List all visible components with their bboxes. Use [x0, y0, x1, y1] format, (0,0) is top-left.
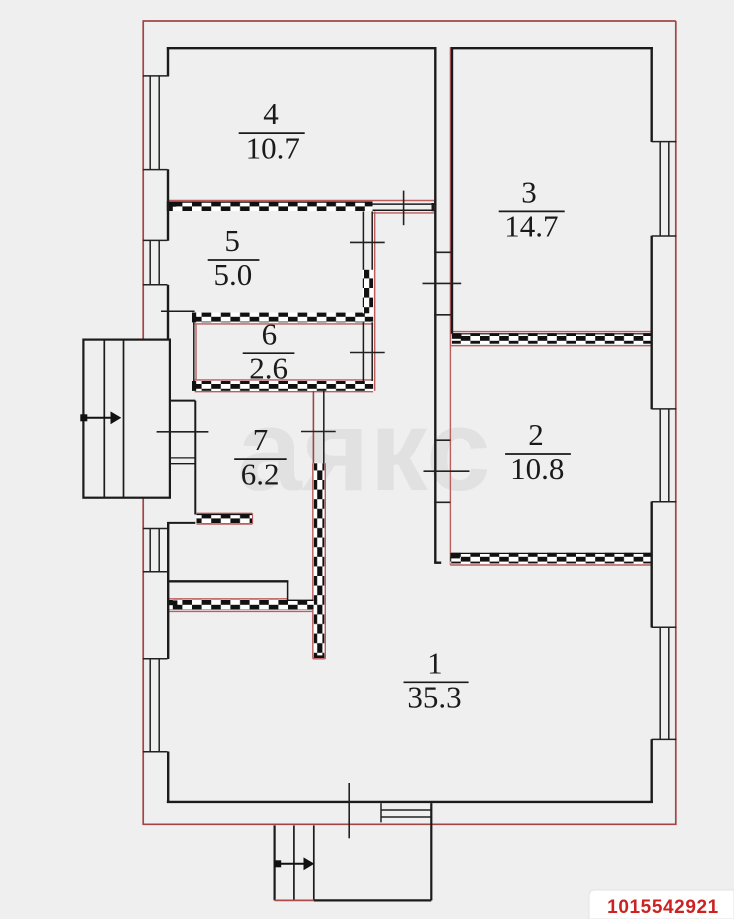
window room1 right — [652, 627, 677, 739]
main black walls — [167, 47, 653, 803]
window room1 left — [143, 659, 168, 752]
window room5 left — [143, 240, 168, 284]
id number box bottom right — [589, 890, 734, 919]
window in bottom wall — [381, 803, 431, 822]
vestibule right wall — [194, 401, 196, 515]
checkered wall: room2 bottom — [450, 553, 651, 564]
tick door room6 — [350, 352, 385, 354]
label room 5 — [208, 223, 260, 292]
svg-text:2: 2 — [528, 417, 544, 452]
right wall segment above room3 window — [651, 47, 653, 142]
rooms5/6 right wall upper double lines — [362, 212, 364, 270]
svg-text:аякс: аякс — [237, 385, 490, 515]
svg-text:10.8: 10.8 — [510, 451, 564, 486]
red re-planning hairlines — [167, 47, 652, 659]
room labels — [208, 96, 571, 714]
tick on bottom wall — [348, 783, 350, 838]
ticks door room3 — [434, 251, 453, 253]
checkered vertical segment rooms5/6 right wall — [363, 270, 373, 314]
label room 1 — [404, 645, 469, 714]
tick door room5 — [350, 241, 385, 243]
red outline of room 6 — [195, 323, 374, 325]
left wall segment between windows 4 and 5 — [167, 169, 169, 241]
checkered wall: room5 bottom — [192, 313, 373, 323]
checkered wall stub above room1 left — [197, 514, 253, 523]
checkered wall: rooms3/2 divider — [452, 333, 652, 344]
wall between room4/corridor and room3/room2 — [434, 47, 436, 563]
room3 left wall — [451, 47, 453, 334]
svg-text:5.0: 5.0 — [214, 257, 253, 292]
checkered demolished wall: room4 bottom — [167, 202, 373, 211]
left porch entry arrow — [80, 411, 121, 424]
label room 6 — [243, 316, 295, 385]
vestibule step lines — [169, 457, 195, 459]
room7 right wall above column: black right face — [323, 391, 325, 464]
rooms5/6 right wall lower double lines — [362, 322, 364, 381]
right wall segment between windows — [651, 502, 653, 628]
left wall segment between window5 and porch — [167, 285, 169, 340]
label room 2 — [505, 417, 571, 486]
svg-text:3: 3 — [521, 175, 537, 210]
svg-text:5: 5 — [224, 223, 240, 258]
bottom wall — [167, 801, 653, 803]
top wall right segment (room 3) — [451, 47, 653, 49]
window below porch left — [143, 529, 168, 572]
bottom cap of corridor wall — [434, 562, 441, 564]
svg-text:1015542921: 1015542921 — [607, 897, 719, 918]
svg-text:14.7: 14.7 — [504, 209, 558, 244]
left wall segment above room4 window — [167, 47, 169, 77]
red line along left of rooms 3 and 2 — [449, 47, 451, 565]
cap at right end of room4 opening — [431, 203, 434, 211]
tick door room7 right wall — [301, 431, 336, 433]
svg-text:2.6: 2.6 — [249, 350, 288, 385]
room4 bottom double wall opening (bottom line) — [373, 209, 435, 211]
room4 bottom double wall opening (top line) — [373, 203, 435, 205]
top wall left segment (room 4) — [167, 47, 437, 49]
wall room1 top-left horizontal — [167, 580, 288, 582]
tick on room4 bottom opening — [403, 191, 405, 226]
left porch — [83, 340, 169, 498]
window room2 right — [652, 409, 677, 502]
thin divider line in left wall zone at room5 bottom — [161, 310, 195, 312]
bottom porch entry arrow — [274, 857, 314, 870]
red line below room4 bottom wall right part — [373, 212, 434, 214]
svg-text:4: 4 — [263, 96, 279, 131]
checkered wall: room6 bottom — [192, 381, 373, 391]
red line below room6 band — [195, 391, 374, 393]
vestibule top wall — [169, 400, 195, 402]
left wall segment below vestibule to room1 window — [167, 522, 169, 659]
svg-text:6.2: 6.2 — [241, 456, 280, 491]
red line below room2 bottom band — [450, 564, 651, 566]
label room 7 — [234, 422, 287, 491]
red outline of checkered stub — [197, 512, 253, 514]
red left face of room7 right wall and column outline — [312, 391, 314, 464]
window room3 right — [652, 142, 677, 236]
checkered vertical column room7/room1 — [314, 463, 324, 658]
windows left wall — [143, 76, 677, 823]
svg-text:1: 1 — [427, 645, 443, 680]
tick entry vestibule — [157, 431, 209, 433]
svg-text:10.7: 10.7 — [246, 130, 300, 165]
door opening tick marks — [157, 191, 470, 839]
bottom porch — [275, 803, 432, 900]
label room 3 — [499, 175, 565, 244]
red lines around rooms3/2 dividing band — [452, 331, 652, 333]
checkered wall: room1 top left part — [168, 600, 314, 610]
label room 4 — [239, 96, 305, 165]
ticks door room2 — [434, 439, 450, 441]
window room4 left — [143, 76, 168, 170]
red outer contour frame (gap on left at porch) — [142, 21, 675, 824]
svg-text:35.3: 35.3 — [407, 680, 461, 715]
right wall segment between windows — [651, 236, 653, 409]
red line right of rooms 5/6 partition — [374, 212, 376, 391]
room6 left thin wall — [193, 322, 195, 381]
left wall segment below room1 window — [167, 752, 169, 804]
right wall segment below room1 window — [651, 739, 653, 803]
vestibule bottom wall — [167, 522, 195, 524]
svg-text:6: 6 — [262, 316, 278, 351]
red line above room4 bottom band — [167, 200, 435, 202]
vertical return at end of room1 top-left wall — [287, 581, 289, 600]
red lines around room1 top band — [168, 598, 288, 600]
svg-text:7: 7 — [253, 422, 269, 457]
